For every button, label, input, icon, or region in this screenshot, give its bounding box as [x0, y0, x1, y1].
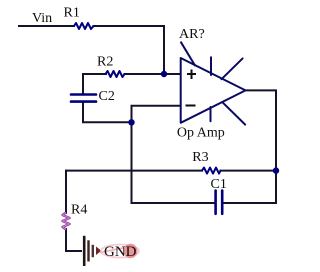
svg-text:AR?: AR? — [179, 27, 205, 42]
svg-text:C2: C2 — [99, 89, 115, 104]
svg-text:R3: R3 — [192, 150, 208, 165]
svg-text:R1: R1 — [64, 5, 80, 20]
svg-text:R2: R2 — [97, 55, 113, 70]
svg-text:Vin: Vin — [32, 11, 52, 26]
svg-text:Op Amp: Op Amp — [177, 126, 225, 141]
svg-text:GND: GND — [104, 244, 137, 260]
svg-text:R4: R4 — [71, 203, 87, 218]
svg-text:C1: C1 — [211, 177, 227, 192]
